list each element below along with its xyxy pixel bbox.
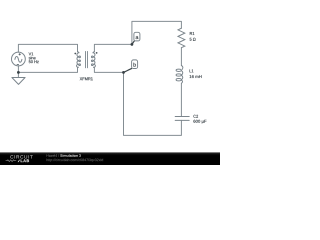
wire: transformer secondary top to node a corner: [94, 44, 131, 51]
footer logo CIRCUIT: [10, 155, 32, 158]
label 16 mH: [190, 75, 202, 78]
label sine: [29, 56, 36, 59]
footer logo bolt mark: [18, 160, 20, 162]
transformer XFMR1 core: [86, 51, 88, 67]
junction dot node b: [122, 71, 125, 74]
phase dot primary: [74, 53, 76, 55]
label L1: [190, 69, 194, 72]
phase dot secondary: [96, 52, 98, 54]
footer title Hazel4 / Simulation 3: [47, 154, 60, 157]
probe b pointer: [124, 68, 133, 72]
transformer XFMR1 secondary winding: [91, 52, 95, 68]
probe a pointer: [132, 41, 135, 45]
ground: [12, 78, 25, 85]
probe b box: [132, 60, 138, 69]
transformer XFMR1 primary winding: [77, 52, 81, 68]
wire: node b corner down, bottom rail to C2: [124, 72, 182, 135]
capacitor C2: [175, 117, 189, 121]
V1 plus polarity mark: [19, 53, 21, 55]
label C2: [193, 115, 198, 118]
wire: transformer primary bottom to ground junction: [18, 67, 77, 72]
resistor R1: [178, 28, 185, 48]
wire: node a corner up and across to R1: [132, 21, 182, 44]
junction dot at ground node: [17, 71, 20, 74]
footer url: [47, 158, 104, 161]
footer logo resistor squiggle: [6, 160, 17, 162]
label V1: [29, 52, 34, 55]
voltage source V1: [12, 52, 26, 66]
label 600 uF: [193, 120, 206, 124]
footer logo LAB: [21, 159, 29, 162]
junction dot node a: [131, 43, 134, 46]
inductor L1: [176, 66, 183, 84]
probe a box: [134, 32, 140, 41]
probe a letter: [136, 36, 139, 39]
wire: transformer secondary bottom to node b corner: [94, 67, 123, 72]
wire: L1 bottom to C2 top: [180, 83, 182, 116]
probe b letter: [134, 63, 136, 67]
wire: source bottom to ground junction: [17, 66, 19, 77]
wire: source top to transformer primary top: [18, 44, 77, 52]
V1 minus polarity mark: [17, 64, 19, 66]
label 50 Hz: [29, 60, 39, 63]
label 5 ohm: [190, 38, 196, 41]
wire: R1 bottom to L1 top: [180, 48, 182, 66]
label R1: [190, 32, 195, 35]
label XFMR1: [80, 77, 93, 80]
